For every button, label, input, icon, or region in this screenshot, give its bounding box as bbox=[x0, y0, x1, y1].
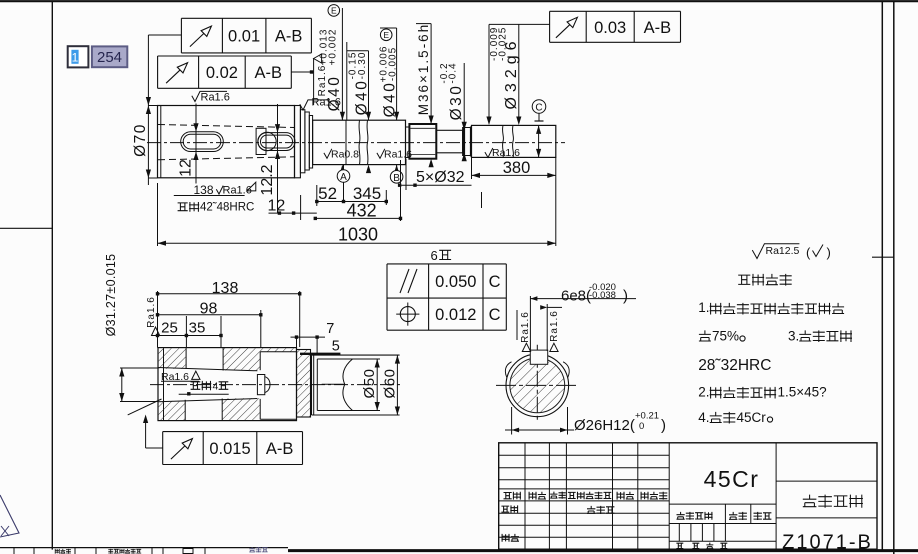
svg-text:Ø31.27±0.015: Ø31.27±0.015 bbox=[104, 254, 118, 337]
tech requirements title bbox=[738, 274, 791, 286]
title block right rows bbox=[776, 480, 877, 482]
bore small end bbox=[257, 375, 264, 395]
svg-text:M36×1.5-6h: M36×1.5-6h bbox=[416, 23, 431, 115]
svg-text:6: 6 bbox=[431, 248, 438, 263]
svg-text:Ø70: Ø70 bbox=[132, 123, 149, 157]
GD&T frame F3: runout 0.03 A-B bbox=[550, 10, 681, 12]
keyway 2 cutter circle bbox=[258, 132, 276, 150]
svg-text:C: C bbox=[489, 306, 501, 324]
svg-text:1.: 1. bbox=[698, 300, 709, 315]
svg-text:1.5×45?: 1.5×45? bbox=[778, 385, 827, 400]
sheet left border bbox=[51, 1, 53, 550]
leader F3 bbox=[489, 23, 550, 25]
row texts design/standard/audit bbox=[501, 505, 518, 513]
phi30 neck bbox=[436, 130, 462, 153]
svg-text:45Cr: 45Cr bbox=[737, 410, 767, 425]
svg-text:0.050: 0.050 bbox=[435, 273, 476, 291]
svg-text:380: 380 bbox=[503, 159, 531, 177]
bottom neighbor sheet line bbox=[0, 547, 288, 549]
svg-text:35: 35 bbox=[189, 320, 206, 337]
svg-text:A-B: A-B bbox=[254, 64, 282, 82]
svg-text:(: ( bbox=[806, 245, 811, 260]
svg-text:12: 12 bbox=[178, 159, 195, 177]
global Ra12.5 mark bbox=[752, 244, 799, 259]
Ra1.6 mark on big cylinder bbox=[192, 91, 227, 101]
svg-text:B: B bbox=[393, 173, 400, 184]
hatch top-left bbox=[159, 348, 186, 369]
svg-text:+0.002: +0.002 bbox=[327, 29, 338, 66]
part name drill spindle bbox=[803, 495, 863, 508]
keyway slot bbox=[530, 350, 547, 364]
groove before thread bbox=[406, 127, 410, 158]
dim phi40 +0.013/+0.002 E bbox=[328, 5, 340, 17]
leader F1 bbox=[148, 34, 181, 36]
keyway2 center line + arrows bbox=[277, 104, 279, 213]
svg-text:Ra1.6: Ra1.6 bbox=[146, 296, 157, 328]
svg-text:42˜48HRC: 42˜48HRC bbox=[200, 202, 254, 214]
bottom tiny texts bbox=[55, 549, 71, 554]
datum A bbox=[343, 165, 345, 202]
svg-text:1: 1 bbox=[72, 51, 79, 65]
left ear bbox=[505, 362, 511, 378]
GD&T frame F5 parallel 0.050 C / position 0.012 C bbox=[387, 263, 506, 265]
svg-text:7: 7 bbox=[326, 321, 334, 337]
detail centerline bbox=[150, 384, 400, 386]
svg-text:Ø26H12(: Ø26H12( bbox=[574, 417, 635, 434]
svg-text:Ø30: Ø30 bbox=[448, 84, 465, 121]
shaft centerline bbox=[147, 142, 565, 144]
hidden taper bore lines bbox=[158, 125, 294, 128]
phi40 section bbox=[313, 120, 406, 164]
svg-text:5: 5 bbox=[332, 338, 340, 354]
thick 5-dim edge bbox=[300, 353, 340, 355]
GD&T frame F4: runout 0.015 A-B bbox=[163, 431, 303, 433]
collar steps bbox=[295, 106, 301, 178]
node page-count box 254 bbox=[92, 46, 127, 67]
dim 138 Ra1.6 bbox=[174, 195, 245, 197]
ext line left bbox=[157, 183, 159, 246]
svg-text:12.2: 12.2 bbox=[259, 164, 276, 195]
svg-text:-0.4: -0.4 bbox=[448, 62, 459, 83]
svg-text:4.: 4. bbox=[698, 410, 709, 425]
svg-text:4: 4 bbox=[213, 381, 219, 393]
Ra0.8 mark journal A bbox=[324, 149, 332, 159]
svg-text:Ra1.6: Ra1.6 bbox=[520, 311, 531, 343]
cap section bbox=[297, 350, 311, 418]
dim 138 detail bbox=[157, 291, 159, 348]
svg-text:0.03: 0.03 bbox=[594, 19, 626, 37]
svg-text:A: A bbox=[340, 172, 347, 183]
svg-text:28˜32HRC: 28˜32HRC bbox=[698, 357, 771, 374]
dim 432 bbox=[400, 160, 402, 221]
detail body outline bbox=[158, 348, 297, 421]
slot window edges top bbox=[185, 348, 187, 369]
rotated Ra1.6 datum flag bbox=[313, 58, 315, 105]
svg-text:0.02: 0.02 bbox=[206, 64, 238, 82]
break curves journal bbox=[502, 125, 505, 157]
svg-text:Ø40: Ø40 bbox=[326, 75, 343, 112]
svg-text:3.: 3. bbox=[788, 329, 799, 344]
counterbore bbox=[260, 351, 296, 353]
title block middle lines bbox=[669, 503, 776, 505]
svg-text:6e8(: 6e8( bbox=[561, 288, 591, 305]
svg-text:0.012: 0.012 bbox=[435, 306, 476, 324]
bottom small text bbox=[676, 543, 683, 548]
dim phi26H12 bbox=[511, 407, 513, 435]
svg-text:): ) bbox=[827, 245, 831, 260]
Ra1.6 mark on collar bbox=[300, 100, 330, 110]
phi32g6 journal bbox=[472, 125, 556, 157]
svg-text:75%: 75% bbox=[712, 329, 739, 344]
big cylinder body bbox=[158, 106, 295, 178]
svg-text:138: 138 bbox=[194, 183, 214, 197]
svg-text:0.01: 0.01 bbox=[228, 28, 260, 46]
svg-text:2.: 2. bbox=[698, 385, 709, 400]
svg-text:52: 52 bbox=[318, 184, 337, 203]
right part (gear blank) bbox=[312, 354, 400, 356]
hatch top-right strip bbox=[260, 348, 296, 351]
header row texts bbox=[504, 492, 522, 500]
dim 98 bbox=[260, 310, 262, 348]
quench text 42-48HRC bbox=[178, 202, 200, 212]
svg-text:12: 12 bbox=[268, 197, 286, 214]
stray center mark bbox=[481, 192, 483, 208]
keyway1 center line + 12 dim arrows bbox=[195, 104, 197, 184]
leader F4 bbox=[146, 447, 163, 449]
svg-text:Ra1.6: Ra1.6 bbox=[384, 148, 412, 160]
svg-text:C: C bbox=[489, 273, 501, 291]
leader F2 bbox=[291, 71, 313, 73]
svg-text:0.015: 0.015 bbox=[209, 440, 250, 458]
right ear bbox=[563, 362, 569, 378]
tech line 2 bbox=[699, 330, 711, 341]
left margin stub bbox=[0, 227, 52, 229]
section crosshair bbox=[496, 384, 577, 386]
right border tick bbox=[872, 256, 894, 258]
svg-text:Ra1.6: Ra1.6 bbox=[549, 310, 560, 342]
slot window edges bottom bbox=[184, 400, 186, 421]
title block outline bbox=[499, 443, 877, 549]
svg-text:Ø50: Ø50 bbox=[361, 369, 378, 399]
datum B bbox=[396, 165, 398, 183]
Ra1.6 mark phi32 journal bbox=[485, 148, 493, 158]
dim phi40 +0.006/-0.005 E bbox=[380, 29, 392, 41]
svg-text:Ra1.6: Ra1.6 bbox=[201, 92, 230, 104]
svg-text:1030: 1030 bbox=[338, 225, 378, 245]
svg-text:A-B: A-B bbox=[266, 440, 294, 458]
svg-text:A-B: A-B bbox=[644, 19, 672, 37]
svg-text:-0.025: -0.025 bbox=[497, 27, 508, 61]
keyway 2 rect section bbox=[256, 128, 266, 154]
sheet right border outer bbox=[893, 1, 895, 554]
svg-text:C: C bbox=[535, 103, 542, 114]
svg-text:Ra12.5: Ra12.5 bbox=[766, 245, 800, 257]
sheet top border bbox=[0, 0, 918, 2]
hatch top-mid bbox=[223, 348, 260, 370]
dim 52 / 345 bbox=[316, 185, 318, 206]
svg-text:254: 254 bbox=[97, 49, 122, 66]
svg-text:-0.30: -0.30 bbox=[357, 52, 368, 80]
sheet right border inner bbox=[881, 1, 883, 551]
dim 6e8 bbox=[530, 298, 636, 300]
svg-text:Ra1.6: Ra1.6 bbox=[492, 147, 520, 159]
svg-text:0: 0 bbox=[639, 421, 644, 432]
dim phi50 bbox=[376, 359, 378, 411]
GD&T frame F2: runout 0.02 A-B bbox=[158, 55, 292, 57]
bottom cells bbox=[13, 548, 15, 554]
stage mark weight scale bbox=[677, 512, 713, 520]
bottom thick border bbox=[288, 549, 918, 552]
svg-text:A-B: A-B bbox=[275, 28, 303, 46]
svg-text:432: 432 bbox=[347, 201, 377, 221]
corner triangle mark bbox=[0, 495, 19, 537]
node page-number input bbox=[68, 46, 89, 67]
section inner circle hatched bbox=[510, 358, 565, 413]
hatch bottom-mid bbox=[222, 398, 260, 420]
Ra1.6 mark journal B bbox=[377, 149, 385, 159]
M36 thread section bbox=[409, 124, 436, 159]
svg-text:25: 25 bbox=[161, 320, 178, 337]
keyway 2 bbox=[258, 133, 295, 151]
svg-text:): ) bbox=[661, 417, 666, 434]
svg-text:5×Ø32: 5×Ø32 bbox=[416, 169, 465, 186]
dim phi70 bbox=[147, 35, 149, 185]
svg-text:-0.038: -0.038 bbox=[589, 290, 616, 301]
svg-text:Ra0.8: Ra0.8 bbox=[331, 148, 359, 160]
svg-text:+0.21: +0.21 bbox=[635, 410, 659, 421]
relief groove bbox=[463, 128, 472, 156]
svg-text:45Cr: 45Cr bbox=[704, 466, 760, 492]
break curves in phi40 bbox=[358, 120, 361, 164]
centerline stub bbox=[322, 383, 345, 385]
GD&T frame F1: runout 0.01 A-B bbox=[181, 17, 311, 19]
svg-text:Ø60: Ø60 bbox=[381, 369, 398, 399]
break curve right part bbox=[343, 359, 353, 411]
svg-text:E: E bbox=[383, 30, 389, 40]
svg-text:): ) bbox=[623, 288, 628, 305]
Ra1.6 labels above keyway bbox=[529, 296, 531, 351]
title block left rows bbox=[499, 454, 670, 456]
dim phi60 bbox=[396, 355, 398, 415]
datum C symbol bbox=[532, 100, 546, 114]
dim 25 35 bbox=[185, 316, 187, 348]
hatch bottom-left bbox=[159, 401, 186, 420]
section outer circle bbox=[506, 354, 569, 417]
title block verticals bbox=[524, 443, 526, 549]
taper bore lines bbox=[158, 368, 257, 371]
svg-text:E: E bbox=[331, 6, 337, 16]
keyway 1 bbox=[181, 132, 224, 152]
